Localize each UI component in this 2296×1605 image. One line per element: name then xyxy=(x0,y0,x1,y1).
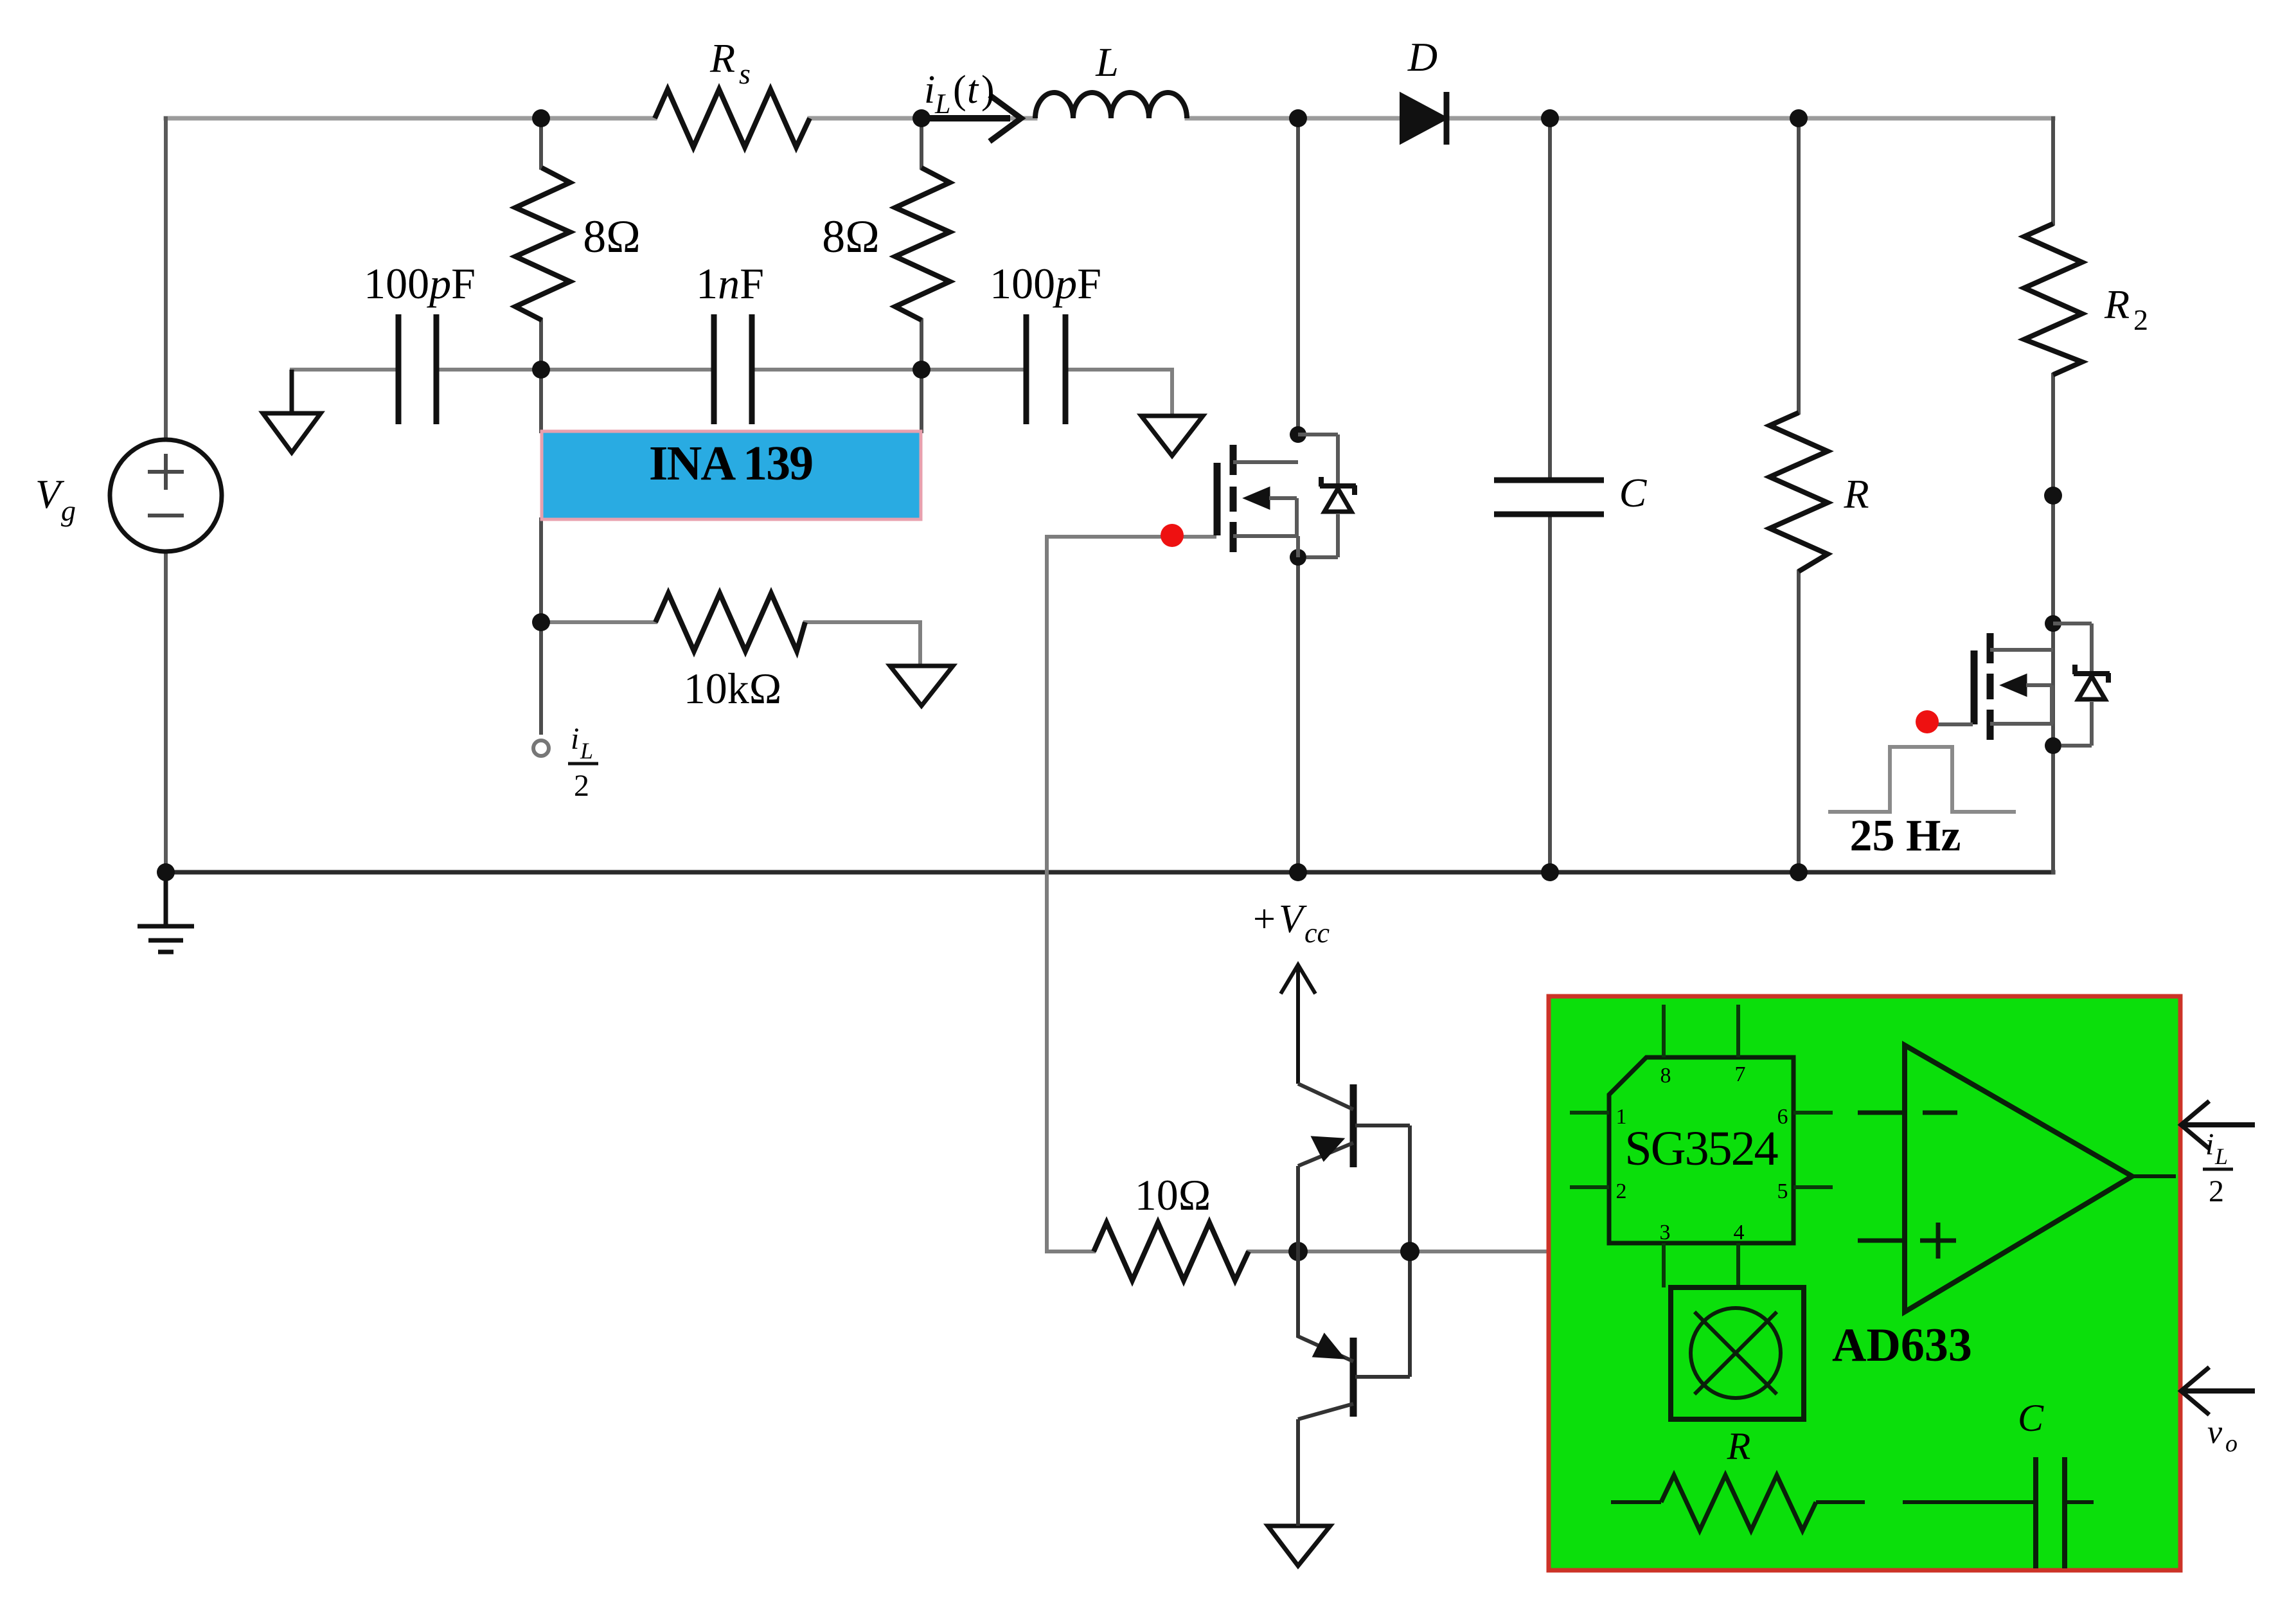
capacitor C compensation xyxy=(1903,1457,2094,1568)
node dots bottom rail xyxy=(157,863,1808,881)
resistor R compensation xyxy=(1611,1475,1865,1530)
wire output cap column xyxy=(1548,118,1552,872)
svg-text:g: g xyxy=(61,494,76,527)
svg-text:V: V xyxy=(1279,897,1307,941)
svg-text:1nF: 1nF xyxy=(696,259,764,308)
ground triangle bjt xyxy=(1268,1526,1330,1566)
svg-text:8: 8 xyxy=(1660,1064,1671,1088)
node dots top rail xyxy=(532,109,1808,127)
diode D xyxy=(1401,92,1446,145)
wire right column R2 M2 xyxy=(2051,118,2055,872)
svg-text:L: L xyxy=(580,738,593,764)
wire right 8ohm column xyxy=(920,118,923,431)
transistor M2 mosfet xyxy=(1931,633,2053,740)
svg-text:L: L xyxy=(934,88,950,120)
svg-text:6: 6 xyxy=(1777,1105,1788,1129)
resistor 10kOhm xyxy=(655,593,805,651)
node dots mid row xyxy=(532,361,930,631)
svg-text:i: i xyxy=(571,722,579,756)
svg-text:cc: cc xyxy=(1304,917,1330,949)
capacitor 100pF right xyxy=(1026,314,1065,424)
IC SG3524 outline xyxy=(1609,1057,1793,1243)
arrow iL(t) xyxy=(921,95,1021,141)
ground earth under Vg xyxy=(138,872,194,952)
resistor 8ohm right xyxy=(895,168,950,320)
controller green box xyxy=(1549,996,2180,1570)
resistor R load xyxy=(1770,413,1828,571)
multiplier AD633 xyxy=(1671,1287,1804,1419)
wire top rail xyxy=(166,116,2053,121)
svg-text:R: R xyxy=(709,35,735,81)
wire 10k row xyxy=(541,622,920,666)
svg-text:R: R xyxy=(1843,471,1869,517)
resistor 10ohm xyxy=(1094,1223,1249,1280)
pulse waveform 25Hz xyxy=(1828,747,2016,812)
wire sense mid row xyxy=(292,370,1172,413)
input arrow vo xyxy=(2181,1367,2255,1415)
svg-text:L: L xyxy=(2214,1143,2228,1169)
ground triangle left 100pF xyxy=(263,370,321,453)
svg-text:4: 4 xyxy=(1734,1221,1745,1244)
label iL/2 fraction xyxy=(568,722,598,803)
svg-text:1: 1 xyxy=(1616,1105,1627,1129)
node iL/2 open circle xyxy=(533,740,549,756)
svg-text:INA 139: INA 139 xyxy=(649,436,812,490)
resistor R2 xyxy=(2024,224,2082,375)
label iL/2 right xyxy=(2203,1127,2233,1208)
capacitor 100pF left xyxy=(398,314,436,424)
transistor Q2 xyxy=(1298,1251,1410,1526)
SG3524 pin stubs xyxy=(1570,1005,1833,1287)
input arrow iL/2 xyxy=(2181,1101,2255,1149)
power +Vcc arrow xyxy=(1281,965,1315,1084)
svg-text:C: C xyxy=(2018,1397,2044,1439)
svg-text:8Ω: 8Ω xyxy=(583,211,641,262)
capacitor 1nF xyxy=(714,314,752,424)
svg-text:D: D xyxy=(1407,34,1437,80)
node dots right column xyxy=(1290,426,2062,754)
svg-text:v: v xyxy=(2207,1414,2223,1451)
svg-text:100pF: 100pF xyxy=(364,259,476,308)
gate red dot M1 xyxy=(1161,524,1184,547)
gate red dot M2 xyxy=(1916,710,1939,733)
ground triangle right 100pF xyxy=(1141,416,1203,456)
wire bjt output to green box xyxy=(1410,1250,1549,1253)
resistor 8ohm left xyxy=(515,168,570,320)
op-amp U1 xyxy=(1858,1045,2176,1312)
svg-text:AD633: AD633 xyxy=(1832,1319,1972,1372)
voltage source Vg xyxy=(110,440,222,551)
transistor M1 mosfet xyxy=(1217,445,1298,557)
svg-text:7: 7 xyxy=(1735,1063,1746,1086)
wire bottom rail xyxy=(166,870,2053,875)
svg-text:R: R xyxy=(1727,1425,1751,1467)
svg-text:t: t xyxy=(967,68,979,112)
body diode M2 xyxy=(2053,623,2110,746)
wire M1 gate feed xyxy=(1047,537,1410,1251)
svg-text:o: o xyxy=(2225,1430,2238,1457)
svg-text:8Ω: 8Ω xyxy=(822,211,880,262)
node A dot xyxy=(1288,1242,1308,1261)
svg-text:SG3524: SG3524 xyxy=(1624,1122,1777,1176)
svg-text:(: ( xyxy=(953,68,966,112)
wire M1 source to bottom rail xyxy=(1296,557,1300,872)
wire M1 drain column xyxy=(1296,118,1300,435)
svg-text:L: L xyxy=(1095,39,1119,85)
wire load R column xyxy=(1797,118,1801,872)
transistor Q1 xyxy=(1298,1084,1410,1251)
svg-text:2: 2 xyxy=(574,769,589,803)
resistor Rs xyxy=(655,89,810,147)
svg-text:+: + xyxy=(1253,897,1276,941)
inductor L xyxy=(1035,93,1187,118)
svg-text:5: 5 xyxy=(1777,1179,1788,1203)
svg-text:25 Hz: 25 Hz xyxy=(1849,811,1961,861)
svg-text:2: 2 xyxy=(2133,303,2148,336)
pin numbers xyxy=(1616,1063,1788,1244)
svg-text:i: i xyxy=(2205,1127,2214,1161)
ground triangle 10k xyxy=(890,666,953,706)
body diode M1 xyxy=(1298,435,1356,557)
svg-text:): ) xyxy=(981,68,995,112)
capacitor C output xyxy=(1494,480,1604,514)
wire bases column xyxy=(1408,1125,1412,1377)
svg-text:R: R xyxy=(2104,282,2130,327)
amplifier INA 139 box xyxy=(542,431,921,519)
node bases output dot xyxy=(1400,1242,1419,1261)
svg-text:C: C xyxy=(1619,470,1648,516)
svg-text:2: 2 xyxy=(1616,1179,1627,1203)
svg-text:s: s xyxy=(739,57,751,90)
svg-text:10Ω: 10Ω xyxy=(1135,1170,1211,1219)
svg-text:3: 3 xyxy=(1660,1221,1671,1244)
wire left 8ohm column xyxy=(539,118,543,733)
svg-text:100pF: 100pF xyxy=(990,259,1101,308)
svg-text:10kΩ: 10kΩ xyxy=(684,664,782,713)
svg-text:i: i xyxy=(924,68,935,112)
svg-text:2: 2 xyxy=(2209,1174,2224,1208)
wire left source column xyxy=(164,118,168,872)
